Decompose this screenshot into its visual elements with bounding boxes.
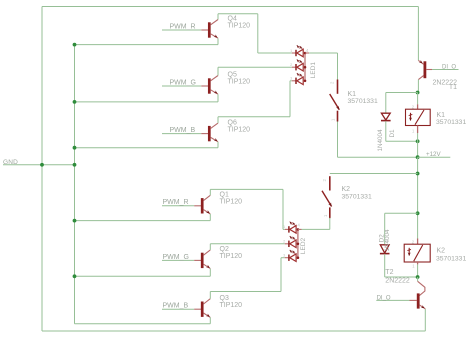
led triangle [290, 240, 296, 248]
transistor-fed led element pin [292, 52, 296, 54]
wire Q4 to LED1 red [258, 52, 292, 54]
junction T1 emitter node [416, 91, 420, 95]
wire Q1 collector up [209, 189, 211, 195]
wire Q5 to LED1 green [218, 66, 292, 68]
transistor-fed led element pin [285, 257, 289, 259]
led anode stub [296, 257, 298, 259]
wire Q6 collector up [217, 117, 219, 123]
svg-text:K2: K2 [342, 186, 351, 193]
wire Q2 collector up [209, 244, 211, 250]
wire D1 top branch [386, 92, 418, 94]
transistor Q2 emitter arrow [206, 265, 211, 269]
wire Q4 emitter return vertical [217, 38, 219, 44]
transistor Q3 base bar [201, 302, 204, 317]
transistor Q1 collector lead [204, 195, 211, 200]
svg-text:TIP120: TIP120 [220, 302, 243, 309]
relay coil K2 pin 1 [417, 262, 419, 264]
wire GND stub [3, 164, 75, 166]
relay coil K1 pin 1 [417, 126, 419, 134]
junction Q4 emitter on trunk [73, 43, 77, 47]
led emission arrows [297, 73, 300, 76]
led cathode bar [295, 64, 297, 70]
transistor T2 base pin [410, 299, 418, 301]
svg-text:PWM_B: PWM_B [163, 303, 189, 310]
transistor Q4 emitter arrow [214, 34, 219, 38]
transistor Q1 emitter arrow [206, 210, 211, 214]
wire +12V trunk down [417, 157, 419, 238]
wire T1 emitter to coil K1 [417, 93, 419, 105]
transistor Q6 emitter lead [211, 137, 218, 141]
svg-text:LED2: LED2 [300, 237, 307, 254]
wire contact K1 to +12V rail [337, 122, 339, 158]
wire Q1 emitter return vertical [209, 214, 211, 221]
relay contact K2 pin 2 stub [329, 176, 331, 190]
transistor T2 base bar [417, 293, 420, 308]
svg-text:2: 2 [322, 179, 327, 182]
svg-text:Q1: Q1 [220, 192, 229, 199]
svg-text:1: 1 [283, 225, 285, 229]
led triangle [297, 77, 303, 85]
transistor Q3 emitter arrow [206, 314, 211, 318]
relay coil diagonal [415, 110, 424, 125]
svg-text:K1: K1 [348, 91, 357, 98]
wire Q5 emitter return horizontal [75, 101, 219, 103]
transistor Q4 collector lead [211, 20, 218, 25]
wire T2 collector jog [417, 277, 419, 281]
svg-text:35701331: 35701331 [436, 256, 466, 263]
wire GND inner trunk [74, 45, 76, 324]
junction D2 top branch [416, 211, 420, 215]
transistor Q6 collector lead [211, 123, 218, 128]
transistor Q5 base pin [201, 85, 208, 87]
svg-text:2: 2 [412, 239, 415, 244]
svg-text:GND: GND [3, 159, 18, 166]
led LED1 pin 4 stub [305, 52, 309, 54]
svg-text:DI_O: DI_O [442, 64, 456, 70]
transistor T2 collector lead [418, 281, 425, 295]
led emission arrows [297, 59, 300, 62]
led anode stub [296, 228, 298, 230]
relay coil box [404, 244, 430, 262]
led emission arrows [290, 236, 293, 239]
svg-text:1: 1 [412, 264, 415, 269]
svg-text:D1: D1 [389, 129, 396, 138]
relay coil diagonal [414, 245, 423, 261]
svg-text:4: 4 [298, 223, 301, 228]
relay contact K2 pin 1 stub [329, 207, 331, 218]
transistor Q4 base pin [201, 29, 208, 31]
junction Q1 emitter on trunk [73, 219, 77, 223]
wire Q2 emitter return vertical [209, 269, 211, 277]
led triangle [290, 254, 296, 262]
transistor Q2 base pin [194, 259, 201, 261]
wire Q1 base net stub PWM [162, 205, 194, 207]
led emission arrows [290, 250, 293, 253]
svg-text:T2: T2 [385, 269, 393, 276]
svg-text:TIP120: TIP120 [228, 79, 251, 86]
wire Q3 to LED2 blue [281, 257, 285, 259]
svg-text:35701331: 35701331 [436, 119, 466, 126]
junction K2 contact feed [416, 172, 420, 176]
transistor-fed led element pin [285, 243, 289, 245]
wire contact K2 to LED2 [329, 218, 331, 230]
svg-text:Q5: Q5 [228, 72, 237, 79]
wire +12V stub [418, 156, 451, 158]
transistor Q2 base bar [201, 253, 204, 268]
led anode stub [303, 52, 305, 54]
svg-text:LED1: LED1 [310, 62, 317, 79]
transistor Q6 emitter arrow [214, 138, 219, 142]
transistor T1 collector arrow [419, 60, 424, 65]
led triangle [297, 49, 303, 57]
relay coil box [406, 109, 431, 125]
svg-text:TIP120: TIP120 [220, 199, 243, 206]
transistor T1 collector lead [418, 60, 423, 64]
svg-text:2: 2 [412, 104, 415, 109]
wire Q5 base net stub PWM [162, 85, 201, 87]
wire T1 emitter down [417, 80, 419, 93]
wire Q4 collector top horizontal [218, 13, 258, 15]
relay coil K1 pin 2 [417, 104, 419, 109]
svg-text:DI_O: DI_O [377, 295, 391, 301]
wire Q3 collector up [209, 292, 211, 299]
svg-text:35701331: 35701331 [342, 193, 372, 200]
transistor Q5 emitter arrow [214, 90, 219, 94]
svg-text:1: 1 [323, 214, 328, 217]
led LED2 bus joints [297, 228, 300, 231]
wire GND right drop to T1 collector [417, 7, 419, 61]
relay coil arrow glyph [410, 113, 412, 121]
svg-text:1N4004: 1N4004 [384, 229, 391, 252]
transistor T1 base bar [423, 61, 426, 78]
led emission arrows [297, 45, 300, 48]
wire Q4 base net stub PWM [162, 29, 201, 31]
wire Q6 base net stub PWM [162, 133, 201, 135]
svg-text:35701331: 35701331 [348, 98, 378, 105]
wire Q6 emitter return horizontal [75, 147, 219, 149]
transistor T2 emitter lead [419, 305, 425, 309]
svg-text:TIP120: TIP120 [228, 126, 251, 133]
led cathode bar [295, 78, 297, 84]
relay coil K2 pin 2 [417, 239, 419, 245]
svg-text:3: 3 [283, 254, 285, 258]
wire coil K2 down [417, 264, 419, 277]
svg-text:1N4004: 1N4004 [377, 129, 384, 152]
led LED2 pin 4 stub [298, 228, 302, 230]
transistor Q4 base bar [208, 22, 211, 37]
junction D1 return [416, 139, 420, 143]
transistor Q2 collector lead [204, 250, 211, 255]
junction +12V node [416, 155, 420, 159]
svg-text:PWM_G: PWM_G [163, 254, 189, 261]
diode triangle [381, 113, 390, 120]
junction Q2 emitter on trunk [73, 274, 77, 278]
wire Q5 emitter return vertical [217, 94, 219, 102]
led anode stub [296, 243, 298, 245]
svg-text:3: 3 [290, 77, 292, 81]
led cathode bar [288, 241, 290, 247]
transistor Q5 base bar [208, 78, 211, 93]
junction Q5 emitter on trunk [73, 100, 77, 104]
wire Q2 base net stub PWM [162, 259, 194, 261]
led cathode bar [295, 50, 297, 56]
transistor Q6 base pin [201, 133, 208, 135]
wire T2 base net stub DI_O [376, 299, 409, 301]
junction Q6 emitter on trunk [73, 146, 77, 150]
svg-text:T1: T1 [449, 84, 457, 91]
svg-text:TIP120: TIP120 [228, 23, 251, 30]
relay coil arrow glyph [408, 248, 410, 256]
led anode stub [303, 80, 305, 82]
transistor Q1 emitter lead [204, 210, 211, 214]
svg-text:Q6: Q6 [228, 119, 237, 126]
wire GND left outer trunk [41, 7, 43, 332]
led emission arrows [290, 222, 293, 225]
transistor Q3 collector lead [204, 299, 211, 304]
diode cathode bar [381, 120, 391, 122]
wire Q6 emitter return vertical [217, 142, 219, 148]
svg-text:Q2: Q2 [220, 246, 229, 253]
svg-text:PWM_R: PWM_R [163, 199, 189, 206]
relay contact K1 lever [330, 94, 340, 110]
transistor Q5 collector lead [211, 76, 218, 81]
svg-text:PWM_G: PWM_G [170, 79, 196, 86]
wire Q2 to LED2 green [210, 243, 284, 245]
wire Q6 collector horizontal [218, 116, 290, 118]
wire Q1 emitter return horizontal [75, 220, 211, 222]
junction GND-outer [40, 163, 44, 167]
led LED1 common bus [304, 53, 306, 81]
wire Q2 emitter return horizontal [75, 275, 211, 277]
svg-text:+12V: +12V [426, 151, 441, 158]
transistor Q5 emitter lead [211, 90, 218, 94]
transistor Q3 emitter lead [204, 313, 211, 317]
wire Q3 collector horizontal [210, 291, 281, 293]
transistor-fed led element pin [292, 80, 296, 82]
svg-text:TIP120: TIP120 [220, 253, 243, 260]
svg-text:1: 1 [331, 118, 336, 121]
svg-text:1: 1 [290, 49, 292, 53]
junction GND-inner [73, 163, 77, 167]
svg-text:PWM_R: PWM_R [170, 23, 196, 30]
transistor Q1 base bar [201, 198, 204, 213]
wire LED1 pin4 to contact K1 [309, 52, 338, 54]
svg-text:2: 2 [330, 81, 335, 84]
led LED1 bus joints [304, 52, 307, 55]
wire Q6 collector up to LED1 blue [289, 81, 291, 117]
led cathode bar [288, 226, 290, 232]
svg-text:PWM_B: PWM_B [170, 127, 196, 134]
svg-text:2N2222: 2N2222 [385, 277, 410, 284]
led triangle [297, 63, 303, 71]
transistor Q6 base bar [208, 126, 211, 141]
transistor Q1 base pin [194, 205, 201, 207]
led LED2 common bus [297, 229, 299, 257]
wire coil K1 to +12V [417, 133, 419, 157]
wire Q3 base net stub PWM [162, 308, 194, 310]
wire down to contact K1 [337, 53, 339, 80]
wire Q4 collector up [217, 14, 219, 20]
wire T1 base net stub DI_O [432, 69, 459, 71]
wire Q3 emitter return horizontal [75, 323, 211, 325]
transistor Q2 emitter lead [204, 264, 211, 268]
wire D1 bottom branch [385, 121, 387, 141]
svg-text:1: 1 [412, 128, 415, 133]
wire D2 top branch [385, 212, 418, 214]
transistor-fed led element pin [285, 228, 289, 230]
relay contact K1 pin 1 stub [337, 111, 339, 122]
wire GND bottom rail [42, 330, 425, 332]
svg-text:K2: K2 [437, 247, 446, 254]
wire Q4 collector down to LED1 red anode [257, 14, 259, 53]
wire T2 emitter drop [424, 309, 426, 331]
led triangle [290, 226, 296, 234]
wire D2 bottom branch [384, 254, 386, 277]
svg-text:2: 2 [283, 240, 285, 244]
wire Q1 collector down [282, 189, 284, 229]
svg-text:Q4: Q4 [228, 16, 237, 23]
wire Q3 collector up to LED2 blue [280, 258, 282, 292]
relay contact K1 pin 2 stub [337, 80, 339, 94]
svg-text:2: 2 [290, 63, 292, 67]
transistor Q3 base pin [194, 308, 201, 310]
transistor T1 emitter lead [418, 75, 423, 79]
wire Q1 collector horizontal [210, 188, 283, 190]
svg-text:Q3: Q3 [220, 295, 229, 302]
transistor T2 emitter arrow [421, 305, 426, 309]
wire contact K2 feed [330, 173, 418, 175]
wire Q4 emitter return horizontal [75, 44, 219, 46]
wire Q6 to LED1 blue [290, 80, 292, 82]
wire Q3 emitter return vertical [209, 317, 211, 323]
transistor-fed led element pin [292, 66, 296, 68]
relay contact K2 lever [322, 191, 332, 207]
diode triangle [380, 245, 389, 253]
transistor Q4 emitter lead [211, 34, 218, 38]
junction T2 collector node [416, 275, 420, 279]
wire GND top rail [42, 6, 418, 8]
led cathode bar [288, 255, 290, 261]
wire Q5 collector up [217, 67, 219, 75]
svg-text:4: 4 [306, 48, 309, 53]
led anode stub [303, 66, 305, 68]
diode cathode bar [380, 253, 390, 255]
transistor T1 base pin [426, 69, 432, 71]
wire Q1 to LED2 red [283, 228, 285, 230]
